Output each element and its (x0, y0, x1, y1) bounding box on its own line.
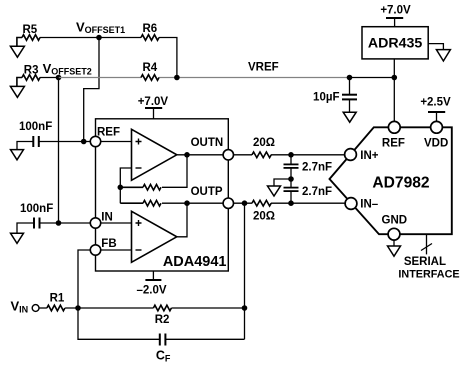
svg-text:2.7nF: 2.7nF (302, 186, 332, 198)
capacitor 2.7nF (upper) (284, 155, 333, 187)
op-amp U1B (132, 211, 177, 262)
svg-text:FB: FB (101, 238, 116, 250)
wire: FB pin to amp2 - (96, 249, 132, 251)
wire: OUTN to 20R (228, 154, 252, 156)
wire: OUTN down to feedback resistor (162, 155, 187, 188)
ground (100nF REF) (11, 150, 24, 160)
pin circle IN- (345, 198, 357, 210)
resistor 20R (IN-) (252, 200, 271, 206)
adc AD7982 polygon (330, 127, 452, 234)
serial interface stub with bus slash (398, 234, 459, 280)
svg-text:100nF: 100nF (20, 203, 53, 215)
wire: R3 to R4 row (VREF net, gray) (40, 77, 395, 79)
pin circle VDD (431, 121, 443, 133)
resistor R4 (141, 75, 159, 81)
supply +7.0V (ADR435) (380, 5, 411, 27)
svg-text:10µF: 10µF (313, 92, 339, 104)
svg-text:VDD: VDD (424, 138, 448, 150)
capacitor 100nF (REF decoupling) (17, 121, 96, 150)
svg-text:R6: R6 (143, 23, 158, 35)
svg-text:REF: REF (382, 138, 405, 150)
svg-text:REF: REF (97, 127, 120, 139)
pin circle GND (388, 228, 400, 240)
svg-text:R2: R2 (155, 314, 170, 326)
resistor 20R (IN+) (252, 152, 271, 158)
svg-text:OUTN: OUTN (191, 137, 224, 149)
pin circle IN (90, 218, 100, 228)
resistor R6 (141, 35, 159, 41)
svg-text:IN–: IN– (360, 199, 379, 211)
resistor R1 (47, 305, 65, 311)
svg-text:+7.0V: +7.0V (380, 5, 411, 17)
input VIN terminal (11, 299, 47, 315)
pin circle OUTN (223, 150, 233, 160)
wire: lower feedback R to OUTP (162, 202, 228, 204)
junction VOFFSET2/IN (56, 220, 62, 226)
pin circle FB (90, 245, 100, 255)
op-amp driver ADA4941 box (96, 119, 229, 271)
svg-text:ADA4941: ADA4941 (163, 254, 227, 270)
svg-text:AD7982: AD7982 (372, 174, 430, 191)
pin circle REF (ADA) (90, 136, 100, 146)
svg-text:R3: R3 (24, 65, 39, 77)
svg-text:20Ω: 20Ω (253, 211, 275, 223)
junction VOFFSET1/REF (81, 139, 87, 145)
wire: R2 tap from IN- line down to VIN row (244, 203, 246, 339)
ground (ADR435) (428, 44, 450, 61)
wire: amp1 - input feedback (120, 168, 131, 203)
wire: R1 to R2 (65, 307, 153, 309)
capacitor 2.7nF (lower) (284, 186, 333, 203)
wire: VOFFSET2 vertical down to IN line (58, 78, 60, 224)
op-amp U1A (132, 129, 177, 180)
voltage reference ADR435 (362, 27, 428, 59)
svg-text:IN: IN (101, 212, 113, 224)
svg-text:ADR435: ADR435 (368, 35, 423, 51)
wire: ADR435 output down to REF pin (393, 59, 395, 127)
capacitor CF loop (78, 308, 245, 364)
svg-text:R4: R4 (143, 62, 158, 74)
ground (between 2.7nF) (268, 179, 292, 196)
ground (AD7982 GND) (388, 240, 401, 256)
resistor R2 (153, 305, 171, 311)
resistor (feedback R lower) (120, 200, 161, 206)
resistor R5 (17, 35, 40, 47)
pin circle REF (AD7982) (388, 121, 400, 133)
svg-text:SERIAL: SERIAL (404, 256, 446, 268)
svg-text:100nF: 100nF (19, 121, 52, 133)
svg-text:20Ω: 20Ω (253, 137, 275, 149)
svg-text:+7.0V: +7.0V (138, 96, 169, 108)
svg-text:R1: R1 (50, 292, 65, 304)
wire: amp1 output to OUTN (177, 154, 229, 156)
svg-text:GND: GND (382, 215, 408, 227)
supply +7.0V (ADA4941) (138, 96, 169, 119)
ground (R3) (10, 86, 24, 97)
svg-text:–2.0V: –2.0V (136, 285, 166, 297)
svg-text:INTERFACE: INTERFACE (398, 268, 459, 280)
supply -2.0V (ADA4941) (136, 271, 166, 297)
wire: VOFFSET1 vertical with jog to REF line (84, 38, 99, 142)
ground (R5) (10, 46, 24, 57)
wire: OUTP to 20R (228, 202, 252, 204)
supply +2.5V (AD7982 VDD) (420, 97, 451, 128)
svg-text:OUTP: OUTP (191, 186, 223, 198)
wire: FB out to VIN node (78, 250, 96, 308)
wire: amp2 output up to OUTP node (177, 203, 187, 237)
capacitor 10uF (313, 78, 357, 113)
ground (100nF IN) (11, 233, 24, 243)
svg-text:R5: R5 (23, 24, 38, 36)
wire: IN pin to amp2 + (96, 222, 132, 224)
capacitor 100nF (IN coupling) (17, 203, 96, 233)
wire: 20R to IN+ (271, 154, 351, 156)
pin circle OUTP (223, 198, 233, 208)
resistor R3 (17, 75, 40, 87)
svg-text:2.7nF: 2.7nF (302, 162, 332, 174)
resistor (feedback R upper) (120, 185, 161, 191)
svg-text:VREF: VREF (248, 62, 279, 74)
ground (10uF) (343, 112, 356, 122)
svg-text:IN+: IN+ (360, 150, 379, 162)
wire: R2 to right node (171, 307, 244, 309)
pin circle IN+ (345, 149, 357, 161)
wire: R5 row to R6 and down to R4 junction (40, 38, 177, 78)
wire: REF pin to amp1 + (96, 141, 132, 143)
svg-text:+2.5V: +2.5V (420, 97, 451, 109)
wire: 20R to IN- (271, 202, 351, 204)
junction R6/R4 (174, 75, 180, 81)
